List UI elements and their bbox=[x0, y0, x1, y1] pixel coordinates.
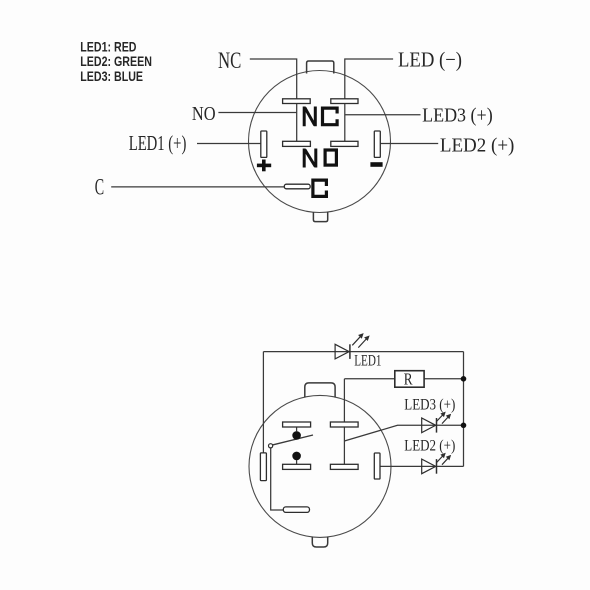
svg-text:LED3 (+): LED3 (+) bbox=[404, 396, 455, 413]
svg-text:LED2 (+): LED2 (+) bbox=[440, 135, 515, 157]
svg-text:C: C bbox=[95, 175, 104, 200]
svg-text:LED (−): LED (−) bbox=[398, 48, 462, 71]
svg-text:LED3 (+): LED3 (+) bbox=[422, 105, 493, 127]
svg-text:LED2: GREEN: LED2: GREEN bbox=[80, 54, 152, 70]
svg-text:LED1: RED: LED1: RED bbox=[80, 39, 136, 55]
svg-text:LED3: BLUE: LED3: BLUE bbox=[80, 69, 143, 85]
svg-text:LED1 (+): LED1 (+) bbox=[129, 131, 187, 155]
svg-text:R: R bbox=[404, 370, 414, 389]
svg-text:LED2 (+): LED2 (+) bbox=[404, 438, 455, 455]
svg-text:LED1: LED1 bbox=[354, 352, 381, 369]
svg-text:NO: NO bbox=[192, 102, 216, 125]
svg-text:NC: NC bbox=[218, 49, 241, 74]
